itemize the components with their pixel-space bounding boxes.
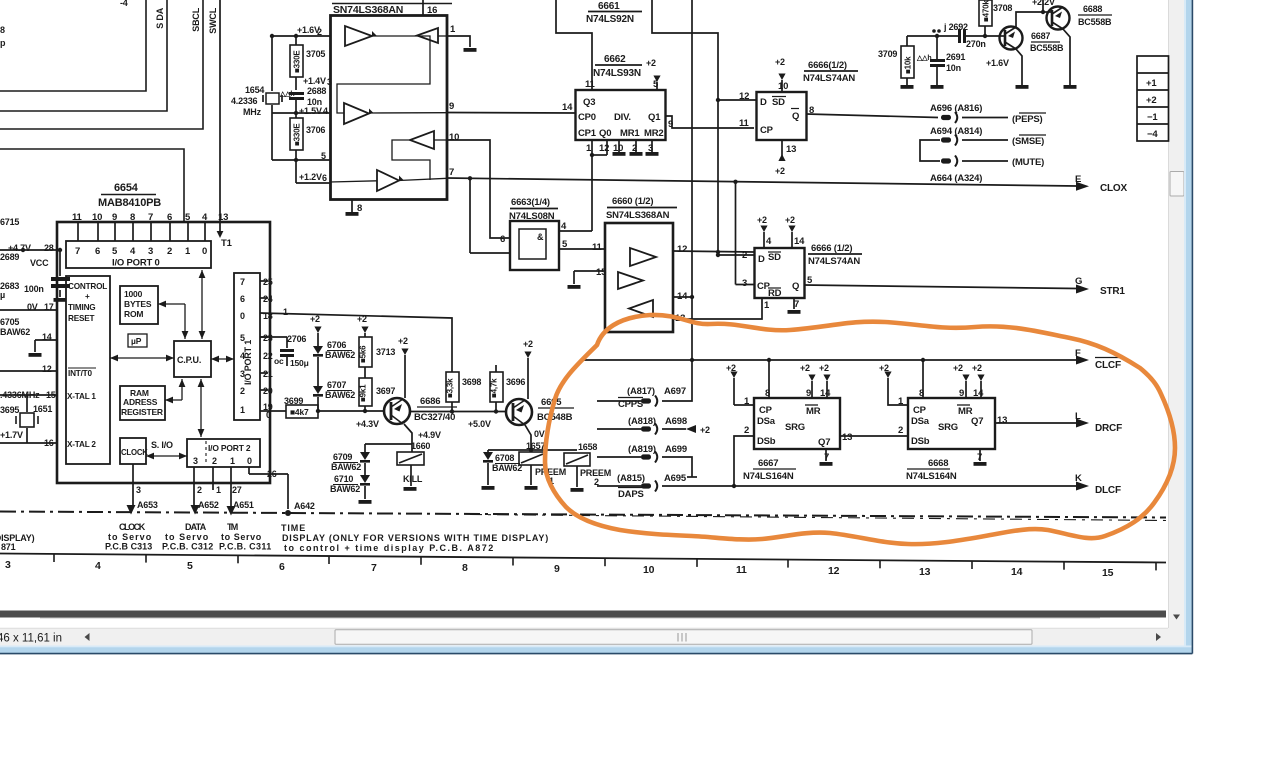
- svg-text:D: D: [760, 97, 767, 108]
- svg-text:2689: 2689: [0, 252, 19, 262]
- svg-text:15: 15: [1102, 567, 1114, 579]
- svg-text:I/O PORT 0: I/O PORT 0: [112, 258, 160, 269]
- svg-text:N74LS92N: N74LS92N: [586, 14, 634, 25]
- svg-text:9: 9: [449, 101, 454, 112]
- svg-text:27: 27: [232, 485, 242, 495]
- svg-text:+2: +2: [819, 363, 829, 373]
- svg-text:24: 24: [263, 294, 273, 304]
- svg-text:2: 2: [744, 425, 749, 436]
- svg-text:3709: 3709: [878, 49, 897, 59]
- svg-text:8: 8: [0, 25, 5, 35]
- svg-text:(A817): (A817): [627, 386, 655, 397]
- svg-text:A695: A695: [664, 473, 687, 484]
- svg-text:△△h: △△h: [916, 55, 931, 62]
- svg-text:3696: 3696: [506, 377, 525, 387]
- svg-text:TM: TM: [227, 522, 238, 532]
- svg-text:+4.3V: +4.3V: [356, 419, 379, 429]
- svg-text:A698: A698: [665, 416, 687, 427]
- svg-text:A653: A653: [137, 500, 158, 510]
- svg-text:p: p: [0, 38, 6, 48]
- svg-text:MR2: MR2: [644, 128, 663, 139]
- svg-text:+2: +2: [800, 363, 810, 373]
- svg-text:3: 3: [148, 246, 153, 257]
- svg-text:P.C.B. C312: P.C.B. C312: [162, 542, 213, 552]
- svg-text:X-TAL 2: X-TAL 2: [67, 440, 96, 449]
- svg-text:2706: 2706: [287, 334, 306, 344]
- svg-text:■330E: ■330E: [293, 123, 302, 146]
- svg-text:6667: 6667: [758, 458, 778, 469]
- svg-text:BC558B: BC558B: [1030, 43, 1064, 53]
- svg-text:8: 8: [462, 562, 468, 574]
- svg-text:4: 4: [95, 560, 101, 572]
- svg-text:12: 12: [42, 364, 52, 374]
- svg-text:REGISTER: REGISTER: [121, 407, 163, 417]
- svg-text:3708: 3708: [993, 3, 1012, 13]
- svg-text:13: 13: [786, 144, 796, 155]
- svg-text:SD: SD: [772, 97, 785, 108]
- svg-text:CP: CP: [760, 125, 774, 136]
- svg-text:3: 3: [742, 278, 747, 289]
- svg-text:9: 9: [959, 388, 964, 399]
- svg-text:9: 9: [112, 212, 117, 223]
- svg-text:9: 9: [554, 563, 560, 575]
- svg-text:+2: +2: [398, 336, 408, 346]
- svg-text:1: 1: [240, 405, 245, 415]
- svg-text:DSa: DSa: [757, 416, 776, 427]
- svg-text:3698: 3698: [462, 377, 481, 387]
- svg-text:+1.5V: +1.5V: [299, 106, 322, 116]
- svg-text:2: 2: [167, 246, 172, 257]
- svg-text:12: 12: [677, 244, 687, 255]
- svg-text:■3,3k: ■3,3k: [446, 378, 455, 398]
- svg-text:N74LS74AN: N74LS74AN: [808, 256, 860, 267]
- svg-text:0: 0: [247, 456, 252, 466]
- svg-text:SRG: SRG: [785, 422, 805, 433]
- svg-text:+2: +2: [700, 425, 710, 435]
- svg-text:4: 4: [323, 106, 328, 116]
- svg-text:11: 11: [72, 212, 83, 223]
- svg-text:(PEPS): (PEPS): [1012, 114, 1043, 125]
- svg-text:+2: +2: [310, 314, 320, 324]
- svg-text:6661: 6661: [598, 1, 620, 12]
- svg-text:1651: 1651: [33, 404, 52, 414]
- svg-text:21: 21: [263, 369, 273, 379]
- svg-text:2688: 2688: [307, 86, 326, 96]
- svg-text:+4.9V: +4.9V: [418, 430, 441, 440]
- svg-text:+2: +2: [357, 314, 367, 324]
- svg-text:TIMING: TIMING: [68, 303, 95, 312]
- svg-text:K: K: [1075, 473, 1082, 484]
- svg-text:22: 22: [263, 351, 273, 361]
- svg-text:1: 1: [230, 456, 235, 466]
- svg-text:3695: 3695: [0, 405, 19, 415]
- svg-text:oc: oc: [274, 356, 284, 366]
- svg-text:SN74LS368AN: SN74LS368AN: [606, 210, 670, 221]
- svg-text:14: 14: [562, 102, 573, 113]
- svg-text:A642: A642: [294, 501, 315, 511]
- svg-text:RESET: RESET: [68, 314, 94, 323]
- svg-text:6710: 6710: [334, 474, 353, 484]
- svg-text:N74LS164N: N74LS164N: [743, 471, 794, 482]
- svg-text:DLCF: DLCF: [1095, 485, 1121, 496]
- svg-text:BAW62: BAW62: [330, 484, 360, 494]
- svg-text:SWCL: SWCL: [208, 7, 218, 33]
- svg-text:4: 4: [240, 351, 245, 361]
- svg-text:Q3: Q3: [583, 97, 595, 108]
- svg-text:12: 12: [828, 565, 840, 577]
- svg-text:270n: 270n: [966, 39, 986, 49]
- svg-text:6: 6: [95, 246, 100, 257]
- svg-text:7: 7: [75, 246, 80, 257]
- svg-text:Q1: Q1: [648, 112, 661, 123]
- svg-text:T1: T1: [221, 238, 233, 249]
- svg-text:BAW62: BAW62: [325, 390, 355, 400]
- svg-text:C.P.U.: C.P.U.: [177, 355, 201, 365]
- svg-text:■10k: ■10k: [904, 56, 913, 74]
- svg-text:6660 (1/2): 6660 (1/2): [612, 196, 653, 207]
- svg-text:11: 11: [739, 118, 750, 129]
- svg-text:+: +: [85, 292, 90, 301]
- svg-text:+1.6V: +1.6V: [986, 58, 1009, 68]
- svg-text:+1.7V: +1.7V: [0, 430, 23, 440]
- svg-text:Q: Q: [792, 111, 799, 122]
- svg-text:+2: +2: [646, 58, 656, 68]
- svg-text:2: 2: [197, 485, 202, 495]
- svg-text:N74LS74AN: N74LS74AN: [803, 73, 855, 84]
- svg-text:8: 8: [130, 212, 135, 223]
- svg-text:Q7: Q7: [971, 416, 983, 427]
- svg-text:P.C.B. C311: P.C.B. C311: [219, 542, 271, 552]
- svg-text:5: 5: [240, 333, 245, 343]
- svg-text:0: 0: [202, 246, 207, 257]
- svg-text:6: 6: [167, 212, 172, 223]
- svg-text:D: D: [758, 254, 765, 265]
- svg-text:7: 7: [148, 212, 153, 223]
- svg-text:STR1: STR1: [1100, 286, 1125, 297]
- svg-text:+2: +2: [775, 57, 785, 67]
- svg-text:28: 28: [44, 243, 54, 253]
- svg-text:6688: 6688: [1083, 4, 1102, 14]
- svg-text:+1.4V: +1.4V: [303, 76, 326, 86]
- svg-text:■330E: ■330E: [293, 50, 302, 73]
- svg-text:µP: µP: [131, 336, 142, 346]
- svg-text:KILL: KILL: [403, 474, 423, 484]
- svg-text:(A819): (A819): [628, 444, 656, 455]
- svg-text:0: 0: [240, 311, 245, 321]
- svg-text:6662: 6662: [604, 54, 626, 65]
- svg-text:MR1: MR1: [620, 128, 640, 139]
- svg-text:(A815): (A815): [617, 473, 645, 484]
- svg-text:DRCF: DRCF: [1095, 423, 1122, 434]
- svg-text:(SMSE): (SMSE): [1012, 136, 1044, 147]
- svg-text:+2: +2: [972, 363, 982, 373]
- svg-text:BAW62: BAW62: [325, 350, 355, 360]
- svg-text:6663(1/4): 6663(1/4): [511, 197, 550, 208]
- svg-text:CP: CP: [913, 405, 927, 416]
- svg-text:13: 13: [997, 415, 1007, 426]
- svg-text:MR: MR: [806, 406, 821, 417]
- svg-text:■5k6: ■5k6: [359, 345, 368, 363]
- svg-text:1660: 1660: [411, 441, 430, 451]
- svg-text:6666(1/2): 6666(1/2): [808, 60, 847, 71]
- svg-text:SBCL: SBCL: [191, 7, 201, 31]
- svg-text:+1.2V: +1.2V: [299, 172, 322, 182]
- svg-text:VCC: VCC: [30, 258, 49, 268]
- svg-text:■4k7: ■4k7: [290, 407, 309, 417]
- svg-text:N74LS93N: N74LS93N: [593, 68, 641, 79]
- svg-text:CLOCK: CLOCK: [119, 522, 146, 532]
- svg-text:14: 14: [820, 388, 831, 399]
- svg-text:µ: µ: [0, 290, 5, 300]
- svg-text:3: 3: [193, 456, 198, 466]
- svg-text:A652: A652: [198, 500, 219, 510]
- svg-text:10: 10: [449, 132, 459, 143]
- svg-text:A664 (A324): A664 (A324): [930, 173, 982, 184]
- svg-text:14: 14: [794, 236, 805, 247]
- svg-text:DIV.: DIV.: [614, 112, 631, 123]
- svg-text:2691: 2691: [946, 52, 965, 62]
- svg-text:CP1: CP1: [578, 128, 597, 139]
- svg-text:to Servo: to Servo: [108, 532, 152, 542]
- svg-text:2: 2: [212, 456, 217, 466]
- svg-text:+2: +2: [1146, 95, 1156, 106]
- svg-text:11: 11: [585, 79, 596, 90]
- svg-text:6687: 6687: [1031, 31, 1050, 41]
- svg-text:CLOCK: CLOCK: [121, 448, 148, 457]
- svg-text:150μ: 150μ: [290, 358, 309, 368]
- svg-text:1657: 1657: [526, 441, 545, 451]
- svg-text:F: F: [1075, 348, 1081, 359]
- svg-text:BYTES: BYTES: [124, 299, 152, 309]
- svg-text:DSa: DSa: [911, 416, 930, 427]
- svg-text:Q7: Q7: [818, 437, 830, 448]
- svg-text:15: 15: [596, 267, 607, 278]
- svg-text:to control + time display P.C.: to control + time display P.C.B. A872: [284, 543, 493, 553]
- svg-text:2: 2: [898, 425, 903, 436]
- svg-text:+1: +1: [1146, 78, 1157, 89]
- svg-text:TIME: TIME: [281, 523, 305, 533]
- svg-text:−1: −1: [1147, 112, 1158, 123]
- svg-text:to Servo: to Servo: [165, 532, 209, 542]
- svg-text:1: 1: [216, 485, 221, 495]
- svg-text:6708: 6708: [495, 453, 514, 463]
- svg-text:20: 20: [263, 386, 273, 396]
- svg-text:BC548B: BC548B: [537, 412, 573, 423]
- svg-text:BC558B: BC558B: [1078, 17, 1112, 27]
- svg-text:3705: 3705: [306, 49, 325, 59]
- svg-text:7: 7: [371, 562, 377, 574]
- svg-text:(MUTE): (MUTE): [1012, 157, 1044, 168]
- svg-text:CP: CP: [759, 405, 773, 416]
- svg-text:ROM: ROM: [124, 309, 143, 319]
- svg-text:871: 871: [1, 542, 16, 552]
- svg-text:Q0: Q0: [599, 128, 611, 139]
- svg-text:4.2336: 4.2336: [231, 96, 258, 106]
- svg-text:3: 3: [5, 559, 11, 571]
- svg-text:S DA: S DA: [155, 7, 165, 28]
- svg-text:■4,7k: ■4,7k: [490, 378, 499, 398]
- svg-text:MAB8410PB: MAB8410PB: [98, 197, 161, 209]
- svg-text:-4: -4: [120, 0, 128, 8]
- svg-text:+2: +2: [775, 166, 785, 176]
- svg-text:10: 10: [92, 212, 102, 223]
- svg-text:6715: 6715: [0, 217, 19, 227]
- svg-text:DSb: DSb: [757, 436, 776, 447]
- svg-text:■9k1: ■9k1: [359, 384, 368, 402]
- svg-text:23: 23: [263, 333, 273, 343]
- svg-text:13: 13: [842, 432, 852, 443]
- svg-text:3713: 3713: [376, 347, 395, 357]
- svg-text:6705: 6705: [0, 317, 19, 327]
- svg-text:A697: A697: [664, 386, 686, 397]
- svg-text:BAW62: BAW62: [0, 327, 30, 337]
- svg-text:to Servo: to Servo: [221, 532, 262, 542]
- svg-text:6707: 6707: [327, 380, 346, 390]
- svg-text:DATA: DATA: [185, 522, 207, 532]
- svg-text:13: 13: [919, 566, 931, 578]
- svg-text:6: 6: [279, 561, 285, 573]
- svg-text:6668: 6668: [928, 458, 948, 469]
- svg-text:26: 26: [267, 469, 277, 479]
- svg-text:7: 7: [240, 277, 245, 287]
- svg-text:−4: −4: [1147, 129, 1158, 140]
- svg-text:&: &: [537, 232, 544, 242]
- svg-text:MHz: MHz: [243, 107, 262, 117]
- svg-text:6709: 6709: [333, 452, 352, 462]
- svg-text:DSb: DSb: [911, 436, 930, 447]
- svg-text:CLOX: CLOX: [1100, 183, 1128, 194]
- svg-text:14: 14: [1011, 566, 1023, 578]
- svg-text:+2: +2: [953, 363, 963, 373]
- svg-text:3: 3: [240, 369, 245, 379]
- svg-text:BC327/40: BC327/40: [414, 412, 455, 423]
- svg-text:6: 6: [500, 234, 505, 245]
- svg-text:SD: SD: [768, 252, 781, 263]
- svg-text:6706: 6706: [327, 340, 346, 350]
- svg-text:100n: 100n: [24, 284, 44, 294]
- svg-text:16: 16: [427, 5, 437, 16]
- svg-text:+5.0V: +5.0V: [468, 419, 491, 429]
- svg-text:3: 3: [327, 77, 332, 87]
- svg-text:DISPLAY (ONLY FOR VERSIONS WIT: DISPLAY (ONLY FOR VERSIONS WITH TIME DIS…: [282, 533, 548, 543]
- svg-text:6686: 6686: [420, 396, 440, 407]
- svg-text:P.C.B C313: P.C.B C313: [105, 542, 152, 552]
- svg-text:6666 (1/2): 6666 (1/2): [811, 243, 852, 254]
- svg-text:5: 5: [187, 560, 193, 572]
- svg-text:6: 6: [240, 294, 245, 304]
- svg-text:1: 1: [283, 307, 288, 317]
- svg-text:+2: +2: [523, 339, 533, 349]
- svg-text:RD: RD: [768, 288, 782, 299]
- svg-text:3706: 3706: [306, 125, 325, 135]
- svg-text:10: 10: [643, 564, 655, 576]
- svg-text:A699: A699: [665, 444, 687, 455]
- svg-text:6: 6: [322, 173, 327, 183]
- svg-text:10: 10: [778, 81, 788, 92]
- svg-text:DAPS: DAPS: [618, 489, 644, 500]
- svg-text:7: 7: [449, 167, 454, 178]
- svg-text:+2: +2: [785, 215, 795, 225]
- svg-text:1000: 1000: [124, 289, 143, 299]
- svg-text:X-TAL 1: X-TAL 1: [67, 392, 96, 401]
- svg-text:A651: A651: [233, 500, 254, 510]
- svg-text:6654: 6654: [114, 182, 139, 194]
- svg-text:Q: Q: [792, 281, 799, 292]
- svg-text:8: 8: [357, 203, 362, 214]
- svg-text:2: 2: [240, 386, 245, 396]
- svg-text:N74LS164N: N74LS164N: [906, 471, 957, 482]
- svg-text:BAW62: BAW62: [492, 463, 522, 473]
- svg-text:10n: 10n: [946, 63, 961, 73]
- svg-text:L: L: [1075, 411, 1081, 422]
- svg-text:I/O PORT 2: I/O PORT 2: [208, 443, 251, 453]
- svg-text:S. I/O: S. I/O: [151, 440, 173, 450]
- svg-text:11: 11: [592, 242, 603, 253]
- svg-text:(A818): (A818): [628, 416, 656, 427]
- svg-text:■470k: ■470k: [982, 0, 991, 22]
- svg-text:25: 25: [263, 277, 273, 287]
- svg-text:CONTROL: CONTROL: [68, 282, 107, 291]
- svg-text:ADRESS: ADRESS: [123, 397, 158, 407]
- svg-text:CLCF: CLCF: [1095, 360, 1121, 371]
- svg-text:3697: 3697: [376, 386, 395, 396]
- svg-text:11: 11: [736, 564, 747, 576]
- svg-text:CP0: CP0: [578, 112, 596, 123]
- svg-text:BAW62: BAW62: [331, 462, 361, 472]
- svg-text:3: 3: [136, 485, 141, 495]
- svg-text:E: E: [1075, 174, 1081, 185]
- svg-text:1654: 1654: [245, 85, 264, 95]
- svg-text:+2: +2: [757, 215, 767, 225]
- svg-text:G: G: [1075, 276, 1082, 287]
- svg-text:0V: 0V: [534, 429, 545, 439]
- svg-text:SRG: SRG: [938, 422, 958, 433]
- svg-text:14: 14: [973, 388, 984, 399]
- svg-text:1658: 1658: [578, 442, 597, 452]
- svg-text:46 x 11,61 in: 46 x 11,61 in: [0, 633, 62, 645]
- svg-text:INT/T0: INT/T0: [68, 369, 92, 378]
- svg-text:9: 9: [806, 388, 811, 399]
